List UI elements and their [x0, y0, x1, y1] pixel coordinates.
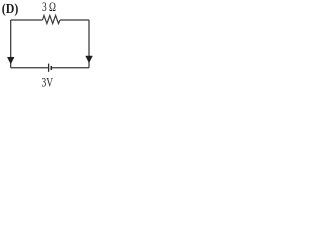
wire right side: [88, 20, 90, 68]
svg-text:(D): (D): [2, 2, 19, 17]
svg-text:3V: 3V: [42, 75, 54, 90]
current arrow right (downward): [86, 56, 93, 63]
resistor R 3Ω zigzag: [43, 15, 61, 23]
wire bottom-left lead: [11, 67, 48, 69]
current arrow left (downward): [7, 57, 14, 64]
svg-text:3 Ω: 3 Ω: [42, 0, 56, 14]
wire left side: [10, 20, 12, 68]
battery cell long plate (+): [48, 64, 50, 72]
wire top-right lead: [60, 19, 89, 21]
wire top-left lead: [11, 19, 43, 21]
wire bottom-right lead: [52, 67, 89, 69]
battery cell short plate (-): [50, 66, 52, 70]
